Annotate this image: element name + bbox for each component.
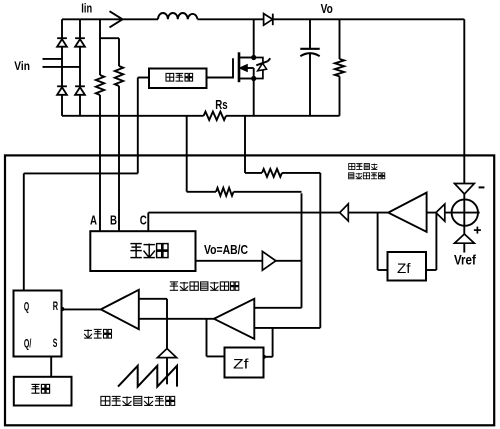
comparator U5: [101, 290, 139, 329]
outer control block border: [5, 155, 494, 425]
feedback Zf voltage amp box: [388, 252, 427, 281]
wire Q output to driver: [24, 172, 138, 174]
wire sense left tap: [186, 116, 188, 192]
wire ramp into comparator: [139, 298, 167, 300]
arrow Vo into summing node: [455, 184, 475, 195]
arrow ramp up: [157, 349, 176, 358]
arrow Vref into summing node: [455, 234, 475, 243]
svg-text:Vo=AB/C: Vo=AB/C: [204, 242, 248, 257]
summing node S1: [463, 193, 465, 253]
svg-text:Q/: Q/: [24, 337, 32, 351]
svg-text:B: B: [110, 214, 117, 228]
driver box: [149, 69, 207, 89]
label current error amplifier: [170, 282, 239, 290]
wire C input from voltage amp: [147, 213, 149, 232]
op-amp U3 voltage error amplifier: [388, 193, 426, 232]
svg-text:Vref: Vref: [454, 251, 476, 267]
diode D2: [75, 37, 85, 39]
resistor R3 load: [339, 19, 341, 59]
svg-text:Zf: Zf: [397, 260, 411, 276]
resistor Rs sense: [204, 112, 226, 120]
wire comparator output to R: [62, 308, 101, 310]
transistor Q1 MOSFET: [238, 52, 241, 82]
wire VA feedback left leg: [377, 213, 379, 270]
diode D1: [57, 37, 67, 39]
diode D5 boost: [264, 14, 273, 26]
svg-text:Rs: Rs: [215, 98, 227, 112]
wire Zf right leg junction: [272, 328, 274, 357]
svg-text:Zf: Zf: [233, 356, 249, 372]
wire bridge right column: [79, 19, 81, 116]
wire sense right tap: [244, 116, 246, 173]
svg-text:Vo: Vo: [321, 1, 333, 16]
label plus: [474, 229, 481, 231]
wire VA input: [427, 212, 480, 214]
resistor divider R2 branch: [118, 38, 120, 66]
capacitor C1 output: [309, 19, 311, 49]
wire multiplier output: [196, 260, 302, 262]
op-amp U4 current error amplifier: [214, 299, 254, 339]
wire top rail: [62, 18, 158, 20]
wire S input from clock: [50, 357, 52, 377]
resistor divider R1 branch: [99, 19, 101, 75]
multiplier U2 box: [90, 231, 195, 271]
label minus: [479, 186, 485, 188]
svg-text:C: C: [140, 214, 147, 228]
resistor Rci2: [216, 188, 234, 196]
svg-text:Vin: Vin: [14, 59, 30, 73]
arrow into VA: [436, 204, 445, 221]
clock box: [14, 377, 72, 406]
wire CA output: [139, 318, 214, 320]
wire VA feedback right leg: [435, 213, 437, 270]
sawtooth fixed ramp waveform: [118, 366, 177, 387]
wire bridge left column: [61, 19, 63, 116]
svg-text:Iin: Iin: [81, 1, 92, 15]
diode D4: [75, 85, 85, 87]
feedback Zf current amp box: [225, 348, 264, 378]
wire Vo sense drop: [463, 19, 465, 183]
svg-text:R: R: [53, 299, 59, 313]
resistor Rci1: [262, 169, 282, 177]
wire gate lead: [207, 58, 234, 77]
svg-text:Q: Q: [24, 300, 29, 314]
wire driver input: [138, 77, 149, 79]
inductor L1: [158, 13, 197, 19]
svg-text:S: S: [53, 336, 58, 350]
arrow multiplier output: [262, 251, 275, 270]
body diode of Q1: [254, 58, 263, 79]
wire stub R1-R2: [100, 37, 119, 39]
source Vin terminals: [43, 58, 63, 60]
diode D3: [57, 85, 67, 87]
wire bottom rail: [62, 115, 204, 117]
arrow Iin current direction: [110, 11, 123, 19]
arrow signal into C: [340, 204, 349, 221]
flip-flop U6 RS latch box: [14, 291, 62, 357]
wire to CA non-inverting input: [234, 191, 302, 193]
svg-text:A: A: [90, 214, 97, 228]
label voltage loop error amplifier: [349, 164, 378, 170]
wire to CA inverting input: [282, 172, 320, 174]
label fixed ramp generator: [101, 396, 175, 405]
wire CA feedback left leg: [206, 319, 208, 357]
label comparator: [84, 329, 111, 338]
